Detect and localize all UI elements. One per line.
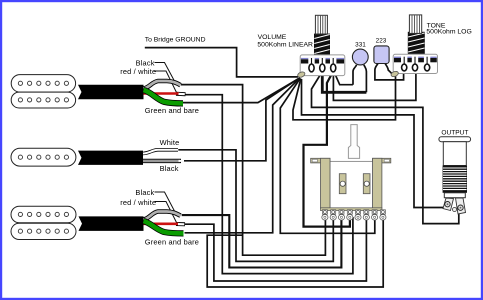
svg-text:331: 331 <box>355 41 366 48</box>
svg-text:Black: Black <box>135 188 154 197</box>
svg-text:500Kohm LINEAR: 500Kohm LINEAR <box>257 41 313 48</box>
svg-text:red / white: red / white <box>120 198 156 207</box>
svg-text:Green and bare: Green and bare <box>145 106 199 115</box>
svg-text:Green and bare: Green and bare <box>145 237 199 246</box>
svg-text:red / white: red / white <box>120 67 156 76</box>
svg-text:OUTPUT: OUTPUT <box>441 129 468 136</box>
svg-text:To Bridge GROUND: To Bridge GROUND <box>145 37 206 44</box>
svg-text:White: White <box>160 138 180 147</box>
svg-text:Black: Black <box>160 164 179 173</box>
svg-text:223: 223 <box>376 37 387 44</box>
svg-text:VOLUME: VOLUME <box>258 34 287 41</box>
svg-text:500Kohm LOG: 500Kohm LOG <box>426 28 471 35</box>
